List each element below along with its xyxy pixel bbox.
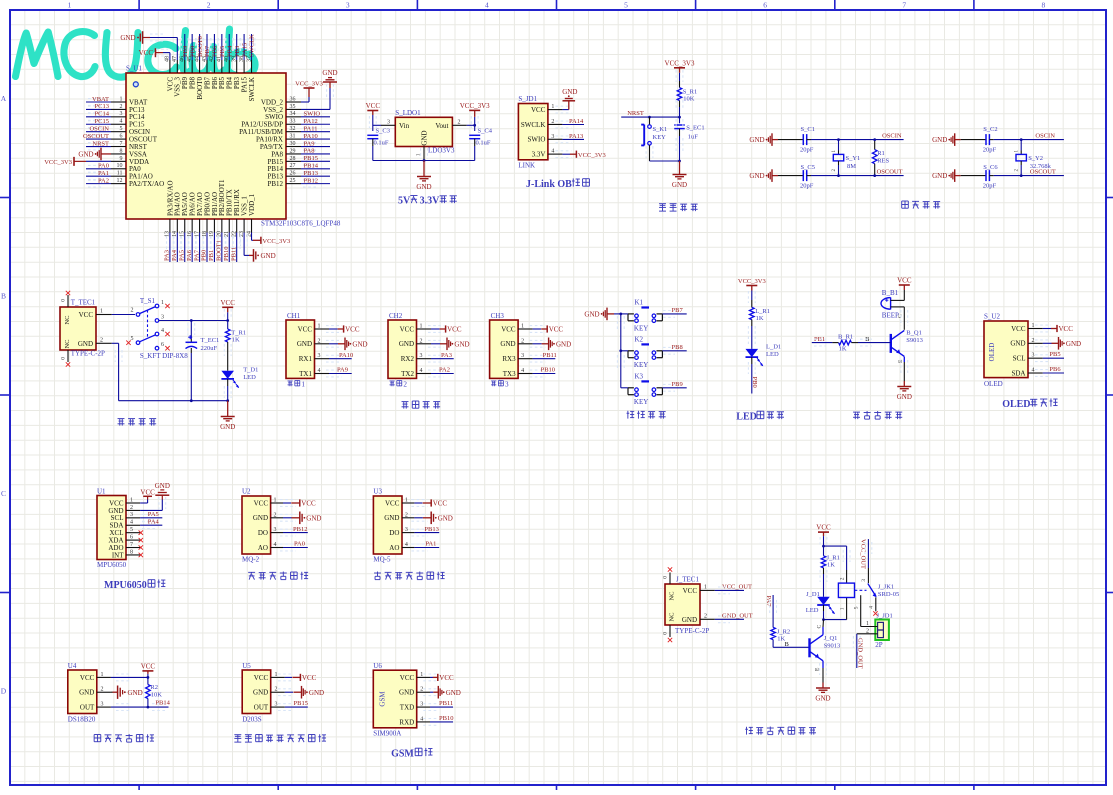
U2 pins 1-4 [253, 498, 283, 552]
svg-text:3: 3 [318, 353, 321, 359]
key K3 KEY [628, 372, 662, 406]
svg-text:R2: R2 [150, 684, 158, 691]
S_JD1 pins 1-4 stubs names numbers [521, 104, 563, 158]
svg-text:5: 5 [854, 606, 860, 609]
svg-text:VCC_3V3: VCC_3V3 [460, 102, 490, 110]
svg-text:PA0: PA0 [294, 541, 305, 548]
wire LED junction to coil pin 1 [822, 618, 825, 621]
wire key to ground rail [650, 160, 680, 162]
wire S_JD1 pin2 PA14 [555, 121, 571, 128]
svg-text:4: 4 [551, 149, 554, 155]
svg-text:GND: GND [352, 340, 367, 348]
wire VCC to junction [823, 536, 825, 546]
title 5V to 3.3V circuit [398, 196, 457, 207]
svg-text:1: 1 [420, 324, 423, 330]
svg-text:K2: K2 [635, 335, 644, 343]
svg-text:4: 4 [130, 520, 133, 526]
svg-text:GND: GND [306, 514, 321, 522]
svg-text:PB11: PB11 [230, 247, 237, 261]
S_LDO1 pin 3 Vin [381, 124, 395, 126]
wire base [858, 342, 891, 344]
svg-text:SWCLK: SWCLK [521, 121, 546, 129]
svg-text:8: 8 [120, 148, 123, 154]
svg-text:VCC_3V3: VCC_3V3 [295, 81, 323, 88]
svg-text:3: 3 [861, 579, 867, 582]
svg-text:VCC: VCC [501, 325, 516, 333]
frame column numbers [68, 1, 1046, 10]
capacitor S_C2 20pF [986, 134, 989, 145]
svg-text:T_D1: T_D1 [243, 367, 258, 374]
svg-text:GND: GND [749, 172, 764, 180]
svg-text:PB6: PB6 [212, 45, 219, 57]
svg-text:220uF: 220uF [201, 345, 218, 352]
svg-text:VCC: VCC [298, 325, 313, 333]
svg-text:SDA: SDA [1011, 369, 1025, 377]
svg-text:SWIO: SWIO [528, 136, 546, 144]
wire CH2 pin3 net PA3 [428, 355, 444, 362]
wire CH2 pin2 to GND [428, 340, 444, 347]
wire U6 pin2 GND [423, 689, 437, 696]
svg-text:LINK: LINK [518, 162, 535, 170]
wire K2 to net PB8 [662, 350, 686, 352]
svg-text:PB4: PB4 [226, 45, 233, 57]
svg-text:A: A [1, 94, 7, 103]
svg-text:3: 3 [387, 120, 390, 126]
svg-text:OLED: OLED [1002, 399, 1030, 410]
wire OSCIN line [807, 139, 811, 141]
title 天然气检测模块 [374, 572, 445, 580]
J_TEC1 pin 1 VCC [700, 589, 715, 591]
svg-text:PA1: PA1 [98, 170, 109, 177]
wire S_R1 to NRST node [679, 101, 681, 108]
svg-text:GND: GND [1010, 340, 1025, 348]
svg-text:1: 1 [420, 672, 423, 678]
J_JD1 pin 1 wire from contact 5 [861, 626, 878, 628]
svg-text:MQ-5: MQ-5 [373, 556, 391, 564]
svg-text:KEY: KEY [634, 398, 648, 406]
relay contact 4 with no-ERC [875, 597, 877, 611]
svg-text:VCC_3V3: VCC_3V3 [665, 59, 695, 67]
svg-text:PA9: PA9 [337, 367, 348, 374]
power VCC top of relay driver [816, 524, 831, 537]
svg-text:1: 1 [275, 672, 278, 678]
capacitor T_EC1 220uF polarized [186, 321, 220, 401]
svg-text:1: 1 [301, 381, 305, 389]
svg-text:26: 26 [290, 171, 296, 177]
power GND at S_C2 [932, 133, 961, 146]
svg-text:Vout: Vout [435, 122, 448, 130]
wire VCC_3V3 to Vout and S_C4 [474, 117, 476, 131]
power VCC_3V3 above U1 pin36 [295, 81, 323, 98]
svg-text:PA10: PA10 [339, 352, 353, 359]
svg-text:8M: 8M [847, 163, 856, 170]
svg-text:J_JD1: J_JD1 [877, 612, 893, 619]
svg-text:31: 31 [290, 134, 296, 140]
svg-text:20pF: 20pF [983, 147, 997, 154]
svg-text:GND: GND [682, 616, 697, 624]
svg-text:D: D [1, 687, 7, 696]
svg-text:J_TEC1: J_TEC1 [676, 576, 699, 584]
svg-text:PA5: PA5 [148, 511, 159, 518]
title reset circuit [659, 204, 698, 211]
svg-text:1: 1 [551, 104, 554, 110]
svg-text:U2: U2 [242, 488, 251, 496]
svg-text:S_C6: S_C6 [983, 164, 998, 171]
resistor J_R1 1K [821, 546, 840, 597]
svg-text:PA5: PA5 [178, 250, 185, 261]
svg-text:GND: GND [584, 311, 599, 319]
LED J_D1 [806, 591, 835, 620]
svg-text:K1: K1 [635, 298, 644, 306]
U1 right pins 36-25 stubs names numbers [239, 96, 301, 188]
svg-text:CH2: CH2 [389, 312, 403, 320]
svg-text:27: 27 [290, 163, 296, 169]
svg-text:VDD_1: VDD_1 [248, 193, 256, 216]
svg-text:AO: AO [389, 544, 399, 552]
module U6 SIM900A body [373, 670, 416, 728]
svg-text:GND_OUT: GND_OUT [722, 613, 753, 620]
svg-text:3: 3 [275, 702, 278, 708]
power VCC_3V3 at U1 pin 9 VDDA [44, 157, 111, 166]
wire VCC_3V3 to L_R1 [751, 291, 753, 301]
svg-text:GND: GND [322, 69, 337, 77]
transistor B_Q1 S9013 [891, 330, 905, 356]
svg-text:3: 3 [405, 527, 408, 533]
svg-text:2: 2 [207, 1, 211, 10]
wire trunk to K2 [621, 350, 628, 352]
power GND bar at U1 pin23 [249, 249, 276, 262]
power GND at MPU6050 pin2 [140, 482, 170, 510]
svg-text:S_C2: S_C2 [983, 126, 997, 133]
svg-text:25: 25 [290, 178, 296, 184]
svg-text:3.3V: 3.3V [532, 151, 546, 159]
svg-text:VCC: VCC [433, 500, 448, 508]
wire GND to S_C2 [961, 139, 986, 141]
power GND at U5 pin2 [294, 686, 325, 699]
CH1 comment 串口1 [287, 381, 305, 389]
J_JD1 pin 2 wire to GND_OUT [857, 633, 878, 635]
svg-text:2: 2 [839, 577, 845, 580]
svg-text:5V: 5V [398, 196, 411, 207]
svg-text:U6: U6 [373, 662, 382, 670]
wire CH1 pin4 net PA9 [326, 370, 342, 377]
svg-text:GND: GND [932, 136, 947, 144]
capacitor S_C3 0.1uF [367, 127, 390, 160]
svg-text:PC13: PC13 [95, 103, 109, 110]
title 烟雾检测模块 [248, 572, 308, 580]
svg-text:OLED: OLED [984, 380, 1003, 388]
svg-text:1: 1 [100, 309, 103, 315]
power GND at U3 pin2 [423, 512, 453, 525]
svg-text:S_Y1: S_Y1 [846, 155, 861, 162]
svg-text:PB1: PB1 [208, 250, 215, 261]
wire CH1 pin1 to VCC [326, 326, 342, 333]
switch T_S1 S_KFT DIP-8X8 [126, 297, 188, 360]
resistor S_R1 10K [677, 88, 682, 101]
LED T_D1 [221, 367, 258, 401]
title LED circuit [736, 411, 784, 422]
svg-text:S_C4: S_C4 [478, 127, 493, 134]
svg-text:GND: GND [309, 689, 324, 697]
svg-text:GND: GND [562, 88, 577, 96]
power GND earth above U1 pin35 [322, 69, 337, 88]
wire S_JD1 pin4 3.3V [555, 151, 571, 158]
svg-text:35: 35 [290, 104, 296, 110]
wire U1 pin23 VSS_1 to GND [243, 233, 245, 256]
svg-text:OLED: OLED [988, 343, 996, 362]
svg-text:OSCOUT: OSCOUT [877, 169, 903, 176]
svg-text:L_D1: L_D1 [766, 344, 781, 351]
svg-text:3: 3 [420, 702, 423, 708]
wire collector to LED junction [822, 627, 824, 635]
resistor R1 RES between OSCIN and OSCOUT [872, 140, 889, 176]
svg-text:RX3: RX3 [502, 355, 516, 363]
title key circuit [627, 411, 666, 419]
svg-text:GND: GND [155, 482, 170, 490]
svg-text:NC: NC [64, 315, 71, 324]
svg-text:20pF: 20pF [800, 147, 814, 154]
svg-text:DO: DO [258, 529, 268, 537]
svg-text:5: 5 [624, 1, 628, 10]
svg-text:GND: GND [261, 252, 276, 260]
svg-text:PA7: PA7 [765, 596, 772, 608]
svg-text:4: 4 [1032, 368, 1035, 374]
wire K1 to net PB7 [662, 313, 686, 315]
svg-text:0: 0 [663, 576, 669, 579]
svg-text:NC: NC [669, 591, 676, 600]
svg-text:PB14: PB14 [304, 163, 319, 170]
svg-text:3: 3 [120, 111, 123, 117]
svg-text:S_C5: S_C5 [801, 164, 815, 171]
svg-text:1K: 1K [756, 315, 764, 322]
svg-text:NC: NC [669, 612, 676, 621]
svg-text:2: 2 [101, 687, 104, 693]
svg-text:4: 4 [420, 716, 423, 722]
wire U2 pin1 VCC [280, 500, 296, 507]
svg-text:PA13: PA13 [569, 133, 583, 140]
wire S_U2 pin2 to GND [1035, 340, 1051, 347]
wire U4 pin1 to VCC and R2 [116, 674, 130, 681]
svg-text:4: 4 [420, 368, 423, 374]
svg-text:SRD-05: SRD-05 [878, 591, 899, 598]
svg-text:LED: LED [736, 412, 757, 423]
key K2 KEY [628, 335, 662, 369]
svg-text:7: 7 [130, 542, 133, 548]
capacitor S_C6 20pF [986, 170, 989, 181]
title temperature module [94, 734, 154, 742]
wire keys trunk [614, 313, 621, 315]
connector CH1 body [286, 320, 315, 378]
wire VCC_3V3 to S_R1 [679, 73, 681, 81]
svg-text:3: 3 [346, 1, 350, 10]
title GSM module [391, 748, 432, 760]
wire S_U2 pin4 PB6 [1035, 370, 1051, 377]
svg-text:MPU6050: MPU6050 [104, 580, 147, 591]
svg-text:3: 3 [274, 527, 277, 533]
svg-text:3: 3 [130, 512, 133, 518]
svg-text:S_Y2: S_Y2 [1028, 155, 1043, 162]
title power circuit [118, 419, 157, 426]
wire U1 pin35 VSS_2 to GND [301, 108, 330, 110]
buzzer B_B1 BEEP [881, 289, 904, 320]
svg-text:NRST: NRST [92, 140, 109, 147]
svg-text:TX3: TX3 [503, 370, 516, 378]
power VCC at U3 pin1 [423, 499, 448, 507]
svg-text:GND: GND [500, 340, 515, 348]
wire GND to S_C6 [961, 175, 986, 177]
svg-text:VCC: VCC [1011, 325, 1026, 333]
power GND at S_U2 pin2 [1052, 337, 1082, 350]
svg-text:GND: GND [1066, 340, 1081, 348]
svg-text:1: 1 [130, 497, 133, 503]
resistor R2 10K [146, 677, 163, 707]
svg-text:J-Link OB: J-Link OB [526, 179, 572, 190]
svg-text:0.1uF: 0.1uF [374, 140, 389, 147]
svg-text:6: 6 [763, 1, 767, 10]
power VCC at S_U2 pin1 [1051, 325, 1073, 333]
power VCC_3V3 above S_C4 [460, 102, 490, 117]
svg-text:2: 2 [521, 338, 524, 344]
wire LED to PB0 [751, 357, 753, 364]
S_LDO1 pin 2 Vout [452, 124, 466, 126]
title relay control circuit [745, 727, 816, 735]
wire T_TEC1 pin2 ground path [112, 342, 119, 344]
svg-text:4: 4 [405, 542, 408, 548]
svg-text:PB13: PB13 [424, 526, 438, 533]
U1 pin1 marker circle [133, 82, 138, 87]
svg-text:PB14: PB14 [155, 700, 170, 707]
svg-text:VCC: VCC [140, 489, 155, 497]
transistor J_Q1 S9013 [810, 635, 824, 661]
MCU U1 STM32F103C8T6_LQFP48 body [126, 73, 286, 219]
svg-text:BOOT0: BOOT0 [197, 36, 204, 57]
svg-text:2: 2 [405, 512, 408, 518]
svg-text:1: 1 [318, 324, 321, 330]
svg-text:GND: GND [78, 340, 93, 348]
wire U2 pin2 GND [280, 514, 296, 521]
svg-text:OSCIN: OSCIN [89, 125, 109, 132]
svg-text:1: 1 [120, 96, 123, 102]
svg-text:GND: GND [897, 393, 912, 401]
svg-text:PB7: PB7 [672, 307, 684, 314]
svg-text:LED: LED [766, 351, 779, 358]
svg-text:VBAT: VBAT [92, 96, 109, 103]
svg-text:1: 1 [405, 498, 408, 504]
svg-text:2: 2 [274, 512, 277, 518]
power GND at CH2 pin2 [440, 338, 470, 351]
svg-text:PA8: PA8 [304, 148, 315, 155]
CH1 pins 1-4 [297, 324, 329, 378]
svg-text:B_R1: B_R1 [838, 334, 853, 341]
wire CH3 pin4 net PB10 [530, 370, 546, 377]
connector T_TEC1 body [60, 307, 96, 350]
wire S_U2 pin1 to VCC [1035, 325, 1051, 332]
power GND below power circuit [220, 401, 235, 431]
svg-text:4: 4 [485, 1, 489, 10]
svg-text:VCC: VCC [80, 674, 95, 682]
svg-text:PB7: PB7 [204, 45, 211, 57]
svg-text:RXD: RXD [399, 718, 414, 726]
wire NRST horizontal [621, 116, 679, 118]
svg-text:VCC: VCC [141, 662, 156, 670]
wire U2 pin3 PB12 [280, 529, 296, 536]
svg-text:GND: GND [749, 136, 764, 144]
svg-text:10K: 10K [683, 96, 695, 103]
power VCC at U6 pin1 [433, 674, 454, 682]
U1 top pins 48-37 stubs names numbers [165, 56, 256, 101]
svg-text:DO: DO [389, 529, 399, 537]
svg-text:SWCLK: SWCLK [248, 77, 256, 102]
svg-text:S_K1: S_K1 [653, 126, 668, 133]
svg-text:VCC: VCC [139, 49, 154, 57]
wire trunk to K3 [621, 387, 628, 389]
svg-text:5: 5 [120, 126, 123, 132]
svg-text:S_R1: S_R1 [683, 88, 697, 95]
svg-text:6: 6 [161, 342, 164, 348]
wire U1 pin36 VDD_2 to VCC_3V3 [301, 101, 309, 103]
svg-text:VCC: VCC [816, 524, 831, 532]
capacitor S_C4 0.1uF [469, 127, 493, 160]
power VCC_3V3 at S_JD1 pin4 [570, 151, 606, 159]
connector J_TEC1 body [665, 584, 700, 625]
svg-text:J_R1: J_R1 [827, 554, 840, 561]
svg-text:12: 12 [117, 178, 123, 184]
wire buzzer to collector [903, 307, 905, 330]
module U5 D203S body [242, 670, 271, 714]
svg-text:1: 1 [101, 672, 104, 678]
svg-text:PB12: PB12 [304, 177, 318, 184]
svg-text:2: 2 [318, 338, 321, 344]
svg-text:1: 1 [704, 584, 707, 590]
svg-text:PA2: PA2 [439, 367, 450, 374]
svg-text:VCC: VCC [1059, 325, 1074, 333]
svg-text:VCC: VCC [549, 326, 564, 334]
svg-text:PA10: PA10 [304, 133, 318, 140]
svg-text:VCC: VCC [301, 500, 316, 508]
power VCC_3V3 top of reset [665, 59, 695, 73]
svg-text:PB10: PB10 [541, 367, 555, 374]
power GND at CH3 pin2 [542, 338, 572, 351]
wire U4 pin2 to GND [111, 691, 113, 693]
svg-text:U4: U4 [68, 662, 77, 670]
svg-text:PB11: PB11 [543, 352, 557, 359]
svg-text:GND: GND [253, 514, 268, 522]
module U2 MQ-2 body [242, 496, 271, 554]
module U4 DS18B20 body [68, 670, 97, 714]
wire GND to S_C1 [778, 139, 803, 141]
svg-text:30: 30 [290, 141, 296, 147]
frame row letters [1, 94, 7, 696]
title MPU6050 module [104, 579, 165, 591]
svg-text:20pF: 20pF [983, 183, 997, 190]
svg-text:GND: GND [399, 689, 414, 697]
svg-text:VCC: VCC [220, 299, 235, 307]
svg-text:C: C [816, 625, 822, 629]
svg-text:VCC: VCC [439, 674, 454, 682]
U1 bottom net label wires and rotated labels [164, 233, 240, 263]
relay J_JK1 SRD-05 coil [838, 583, 866, 597]
resistor B_R1 1K [832, 334, 858, 353]
MCUclub logo [16, 29, 256, 77]
svg-text:PA4: PA4 [171, 249, 178, 261]
svg-text:RES: RES [877, 157, 889, 164]
svg-text:3: 3 [521, 353, 524, 359]
wire S_JD1 pin1 to GND [555, 106, 571, 113]
power VCC at CH3 pin1 [541, 325, 563, 333]
svg-text:11: 11 [117, 171, 123, 177]
power VCC above R2 [141, 662, 156, 674]
resistor L_R1 1K [750, 307, 755, 319]
